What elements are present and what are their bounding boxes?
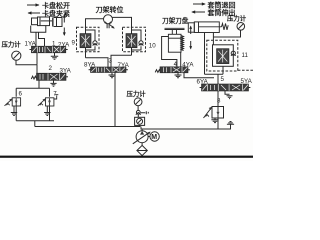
- svg-text:2: 2: [49, 65, 53, 72]
- one-way throttle 11 assembly: [207, 40, 238, 71]
- pressure switch: [135, 117, 145, 125]
- return bus right: [141, 124, 231, 129]
- svg-text:9: 9: [72, 40, 76, 47]
- svg-text:5: 5: [221, 76, 225, 83]
- svg-text:卡盘松开: 卡盘松开: [42, 1, 70, 10]
- tank end right: [227, 122, 234, 125]
- valve 5 solenoid DCV 4/3: [200, 84, 251, 91]
- tank drain valve 8: [211, 118, 218, 123]
- svg-text:压力计: 压力计: [127, 89, 147, 98]
- check valve pump: [136, 110, 149, 114]
- svg-text:压力计: 压力计: [2, 40, 22, 49]
- pressure gauge right: [237, 23, 245, 31]
- clamp cylinder: [165, 28, 185, 52]
- svg-text:压力计: 压力计: [227, 14, 247, 23]
- wire throttle9 to valve3: [86, 58, 109, 67]
- svg-text:11: 11: [242, 52, 249, 59]
- tank drain valve 7: [44, 106, 50, 116]
- wire motor right: [113, 17, 132, 27]
- arrow chuck-clamp: [28, 11, 41, 14]
- throttle 11 loop: [213, 45, 234, 67]
- electric motor M: [148, 132, 159, 141]
- manifold 6-7: [16, 88, 49, 97]
- wire valve3 P riser: [114, 73, 116, 127]
- arrow jaw-up: [63, 14, 66, 23]
- hydraulic motor: [104, 15, 113, 24]
- check valve 11: [231, 51, 236, 56]
- wire gauge right: [213, 30, 240, 37]
- arrow clamp up: [189, 26, 192, 35]
- wire valve6 down: [15, 106, 17, 121]
- wire chuck B: [39, 32, 45, 46]
- check valve 9: [93, 41, 98, 46]
- loop bottom 6-7: [16, 121, 54, 127]
- wire valve2 feed: [36, 65, 38, 73]
- valve 3 solenoid DCV 4/3: [89, 67, 128, 73]
- one-way throttle 9 assembly: [77, 27, 100, 52]
- pressure gauge left: [12, 51, 21, 60]
- svg-text:刀架转位: 刀架转位: [96, 5, 124, 14]
- arrow chuck-release: [27, 3, 40, 6]
- wire chuck A: [35, 32, 37, 46]
- chuck cylinder: [32, 17, 53, 26]
- valve 4 solenoid DCV 2pos: [155, 67, 190, 73]
- svg-text:6: 6: [19, 91, 23, 98]
- tank drain valve 5: [225, 91, 233, 99]
- arrow sleeve-extend: [191, 10, 205, 13]
- throttle 10 internals: [126, 27, 141, 55]
- svg-text:10: 10: [149, 43, 156, 50]
- svg-text:8: 8: [217, 98, 221, 105]
- chuck jaw: [52, 18, 62, 27]
- wire motor left: [86, 19, 104, 27]
- arrow clamp down: [189, 41, 192, 50]
- svg-text:M: M: [151, 134, 157, 141]
- wire riser valve1-P: [36, 53, 38, 65]
- pressure gauge bottom: [134, 98, 142, 106]
- wire gauge bottom stem: [137, 106, 139, 110]
- motor shaft: [107, 24, 115, 29]
- reducing valve 7: [38, 95, 59, 106]
- pump: [133, 131, 151, 144]
- valve 2 solenoid DCV 2pos: [31, 73, 68, 80]
- wire clamp left: [162, 37, 177, 67]
- wire valve8 down: [217, 118, 219, 129]
- arrow jaw-down: [63, 28, 66, 37]
- floor line: [0, 156, 253, 158]
- filter: [137, 143, 147, 156]
- wire valve5 P: [217, 91, 219, 107]
- wire valve7 down: [49, 106, 51, 121]
- tank under valve 1: [51, 53, 58, 60]
- svg-text:3: 3: [109, 58, 113, 65]
- arrow sleeve-return: [193, 2, 206, 5]
- chuck cylinder mount: [31, 26, 46, 33]
- svg-text:套筒退回: 套筒退回: [208, 1, 236, 10]
- wire gauge-left stem: [16, 60, 37, 65]
- tank under valve 4: [175, 73, 182, 78]
- supply bus left: [35, 126, 141, 128]
- reducing valve 6: [5, 98, 21, 106]
- sleeve cylinder: [188, 22, 228, 33]
- reducing valve 8: [204, 107, 224, 119]
- wire throttle11 out: [205, 66, 224, 84]
- throttle 9 internals: [80, 27, 95, 58]
- tank drain valve 6: [11, 106, 17, 116]
- tank under valve 2: [50, 80, 56, 86]
- svg-text:刀架刀盘: 刀架刀盘: [162, 16, 189, 25]
- dash boundary right: [238, 69, 253, 71]
- tank under valve 3: [109, 73, 116, 78]
- wire clamp bottom: [180, 52, 182, 67]
- check valve 10: [139, 41, 144, 46]
- valve 1 solenoid DCV 4/3: [30, 46, 68, 53]
- wire pump column: [138, 115, 142, 131]
- wire valve2 out: [38, 80, 40, 88]
- wire sleeve cap: [212, 33, 214, 45]
- wire sleeve rod side: [204, 33, 206, 75]
- wire valve4 P: [184, 73, 214, 78]
- wire throttle10 to valve3: [111, 55, 132, 67]
- one-way throttle 10 assembly: [123, 27, 146, 52]
